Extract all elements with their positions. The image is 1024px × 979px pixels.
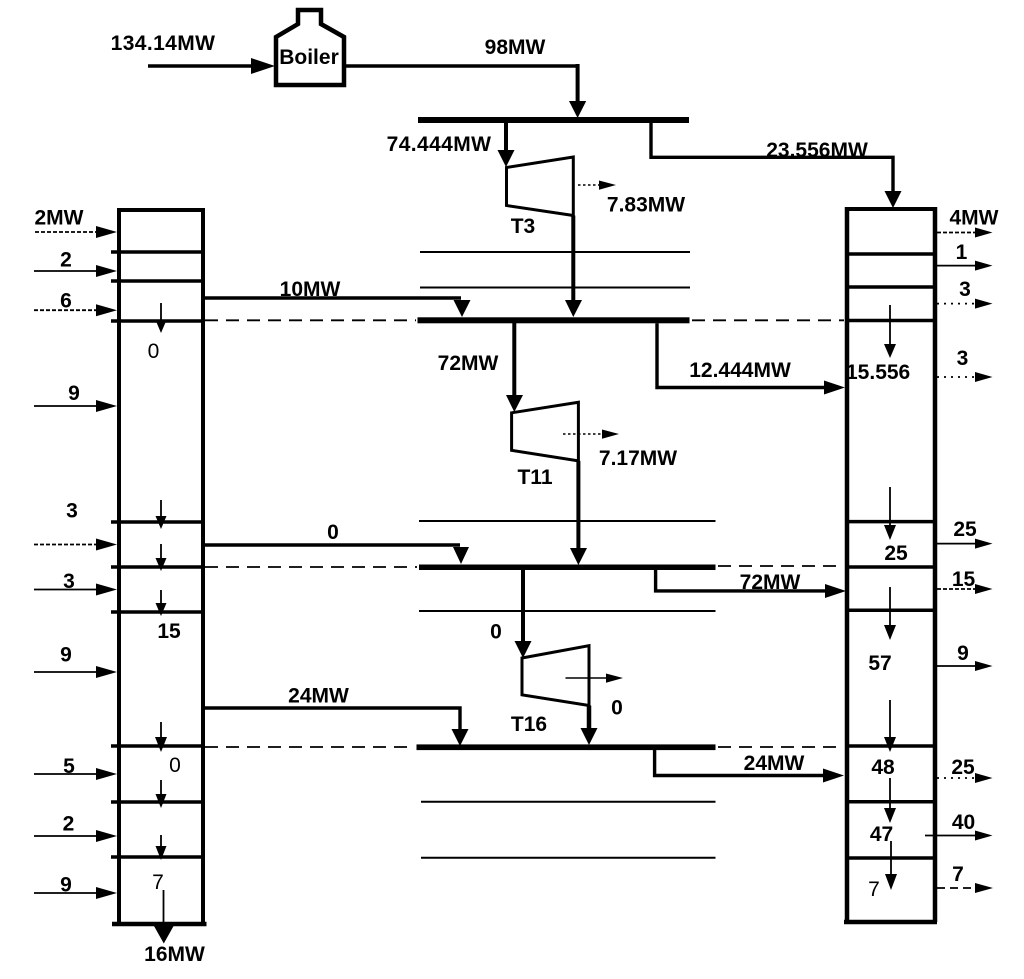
svg-text:15: 15 bbox=[952, 568, 976, 591]
wire T11 work output arrow bbox=[563, 430, 619, 439]
left column internal arrow 4 bbox=[156, 590, 167, 616]
wire output arrow 1 bbox=[937, 261, 993, 271]
node second steam header bbox=[418, 317, 690, 323]
svg-text:2: 2 bbox=[60, 248, 72, 271]
right column divider y746 bbox=[845, 744, 935, 748]
left column internal arrow 2 bbox=[156, 500, 167, 529]
svg-text:0: 0 bbox=[490, 621, 502, 644]
wire dashed header2 right bbox=[692, 319, 844, 321]
left column internal arrow 3 bbox=[156, 544, 167, 571]
svg-text:9: 9 bbox=[957, 642, 969, 665]
right column outline bbox=[844, 207, 937, 922]
wire T16 work output arrow bbox=[566, 674, 624, 683]
wire left column to second header (10MW) bbox=[203, 298, 471, 317]
right column divider y320 bbox=[845, 319, 935, 323]
svg-text:74.444MW: 74.444MW bbox=[387, 133, 492, 156]
svg-text:57: 57 bbox=[868, 652, 891, 675]
wire input arrow 2 lower bbox=[34, 830, 117, 842]
wire dashed header3 right bbox=[718, 565, 844, 567]
wire input arrow 5 bbox=[34, 768, 117, 780]
right column internal arrow 1 bbox=[884, 305, 896, 358]
svg-text:2: 2 bbox=[63, 813, 75, 836]
right column divider y254 bbox=[845, 252, 935, 256]
wire output arrow 9 bbox=[937, 661, 993, 671]
wire interval line y611 bbox=[419, 610, 716, 612]
left column internal arrow 5 bbox=[155, 722, 167, 752]
svg-text:0: 0 bbox=[611, 697, 623, 720]
svg-text:24MW: 24MW bbox=[288, 685, 349, 708]
wire interval line y858 bbox=[421, 857, 716, 859]
wire input arrow 9 bottom bbox=[34, 887, 117, 899]
left column outline bbox=[112, 208, 207, 924]
left column internal arrow 7 bbox=[156, 835, 167, 860]
right column internal arrow 2 bbox=[884, 487, 896, 540]
wire dashed header4 left bbox=[205, 746, 414, 748]
wire input arrow 3 bbox=[34, 539, 117, 551]
right column internal arrow 6 bbox=[885, 841, 897, 890]
left column divider y321 bbox=[111, 319, 203, 323]
svg-text:0: 0 bbox=[169, 754, 181, 777]
wire second header to turbine T11 (72MW) bbox=[506, 323, 523, 412]
wire input arrow 6 bbox=[34, 304, 117, 316]
wire third header to right column (72MW) bbox=[656, 570, 846, 598]
wire boiler output to top header bbox=[344, 64, 586, 118]
right column internal arrow 5 bbox=[884, 778, 896, 823]
svg-text:7.17MW: 7.17MW bbox=[599, 447, 677, 470]
svg-text:7: 7 bbox=[868, 878, 880, 901]
svg-text:3: 3 bbox=[959, 278, 971, 301]
node top steam header bbox=[418, 117, 689, 123]
svg-text:12.444MW: 12.444MW bbox=[689, 359, 791, 382]
wire interval line y252 bbox=[420, 251, 690, 253]
wire input arrow 9 bbox=[34, 400, 117, 412]
left column internal arrow 1 bbox=[156, 303, 167, 333]
left column divider y802 bbox=[111, 800, 203, 804]
svg-text:24MW: 24MW bbox=[744, 752, 805, 775]
boiler bbox=[276, 10, 344, 85]
svg-text:6: 6 bbox=[60, 290, 72, 313]
svg-text:25: 25 bbox=[884, 542, 908, 565]
left column divider y612 bbox=[111, 610, 203, 614]
wire left column to fourth header (24MW) bbox=[203, 708, 469, 746]
wire output arrow 25 bbox=[937, 539, 993, 549]
turbine T11 bbox=[512, 402, 579, 461]
wire dashed header3 left bbox=[205, 566, 417, 568]
svg-text:T11: T11 bbox=[517, 466, 552, 489]
wire second header to right column (12.444MW) bbox=[657, 323, 845, 394]
svg-text:7: 7 bbox=[152, 871, 164, 894]
wire output arrow 15 bbox=[937, 584, 993, 594]
svg-text:47: 47 bbox=[870, 823, 893, 846]
svg-text:T3: T3 bbox=[511, 215, 536, 238]
svg-text:25: 25 bbox=[951, 756, 975, 779]
wire T3 work output arrow bbox=[578, 181, 616, 190]
wire left column to third header (0) bbox=[203, 545, 469, 564]
wire T11 exhaust to third header bbox=[570, 461, 587, 565]
wire output arrow 7 bbox=[937, 883, 993, 893]
wire output arrow 3 bbox=[937, 299, 993, 309]
svg-text:9: 9 bbox=[60, 644, 72, 667]
wire output arrow 25 lower bbox=[937, 773, 993, 783]
svg-text:3: 3 bbox=[957, 347, 969, 370]
wire top header to turbine T3 bbox=[498, 123, 515, 167]
wire interval line y521 bbox=[419, 520, 716, 522]
turbine T3 bbox=[507, 157, 574, 216]
svg-text:9: 9 bbox=[68, 382, 80, 405]
left column divider y567 bbox=[111, 565, 203, 569]
svg-text:134.14MW: 134.14MW bbox=[111, 32, 216, 55]
svg-text:Boiler: Boiler bbox=[279, 46, 339, 69]
wire interval line y287 bbox=[420, 287, 690, 289]
svg-text:3: 3 bbox=[66, 500, 78, 523]
svg-text:0: 0 bbox=[327, 521, 339, 544]
node fourth steam header bbox=[417, 744, 716, 750]
left column internal arrow 6 bbox=[156, 780, 167, 808]
right column divider y802 bbox=[845, 800, 935, 804]
left column divider y746 bbox=[111, 744, 203, 748]
wire dashed header2 left bbox=[205, 319, 416, 321]
right column divider y287 bbox=[845, 285, 935, 289]
wire fuel input arrow into boiler bbox=[148, 58, 275, 74]
wire fourth header to right column (24MW) bbox=[655, 750, 844, 783]
wire dashed header4 right bbox=[718, 746, 844, 748]
wire output arrow 4MW bbox=[937, 228, 993, 238]
right column internal arrow 3 bbox=[884, 587, 896, 640]
svg-text:16MW: 16MW bbox=[144, 943, 205, 966]
wire input arrow 9 mid bbox=[34, 666, 117, 678]
right column divider y522 bbox=[845, 520, 935, 524]
svg-text:T16: T16 bbox=[511, 713, 547, 736]
svg-text:0: 0 bbox=[148, 340, 160, 363]
svg-text:7.83MW: 7.83MW bbox=[607, 194, 685, 217]
wire third header to turbine T16 (0) bbox=[515, 570, 532, 658]
svg-text:48: 48 bbox=[871, 756, 895, 779]
svg-text:40: 40 bbox=[952, 811, 975, 834]
turbine T16 bbox=[522, 646, 589, 706]
right column divider y858 bbox=[845, 856, 935, 860]
node third steam header bbox=[419, 565, 716, 571]
svg-text:25: 25 bbox=[953, 518, 977, 541]
svg-text:4MW: 4MW bbox=[950, 207, 999, 230]
right column divider y567 bbox=[845, 565, 935, 569]
right column divider y610 bbox=[845, 609, 935, 613]
right column internal arrow 4 bbox=[884, 700, 896, 752]
wire output arrow 40 bbox=[925, 831, 993, 841]
wire T16 exhaust to fourth header bbox=[581, 706, 598, 746]
svg-text:7: 7 bbox=[952, 863, 964, 886]
left column divider y522 bbox=[111, 520, 203, 524]
left column divider y281 bbox=[111, 279, 203, 283]
wire T3 exhaust to second header bbox=[565, 216, 582, 318]
svg-text:72MW: 72MW bbox=[438, 352, 499, 375]
wire interval line y802 bbox=[421, 801, 716, 803]
left column divider y252 bbox=[111, 250, 203, 254]
svg-text:98MW: 98MW bbox=[485, 36, 546, 59]
wire input arrow 2 bbox=[34, 265, 117, 277]
svg-text:15: 15 bbox=[157, 620, 181, 643]
svg-text:1: 1 bbox=[956, 241, 968, 264]
left column divider y857 bbox=[111, 855, 203, 859]
wire top header to right column (23.556MW) bbox=[651, 123, 902, 208]
wire left column bottom exit 16MW bbox=[154, 890, 174, 944]
wire output arrow 3 lower bbox=[937, 372, 993, 382]
svg-text:15.556: 15.556 bbox=[846, 361, 910, 384]
svg-text:2MW: 2MW bbox=[35, 207, 84, 230]
wire input arrow 2MW bbox=[35, 226, 117, 238]
wire input arrow 3 lower bbox=[34, 584, 117, 596]
